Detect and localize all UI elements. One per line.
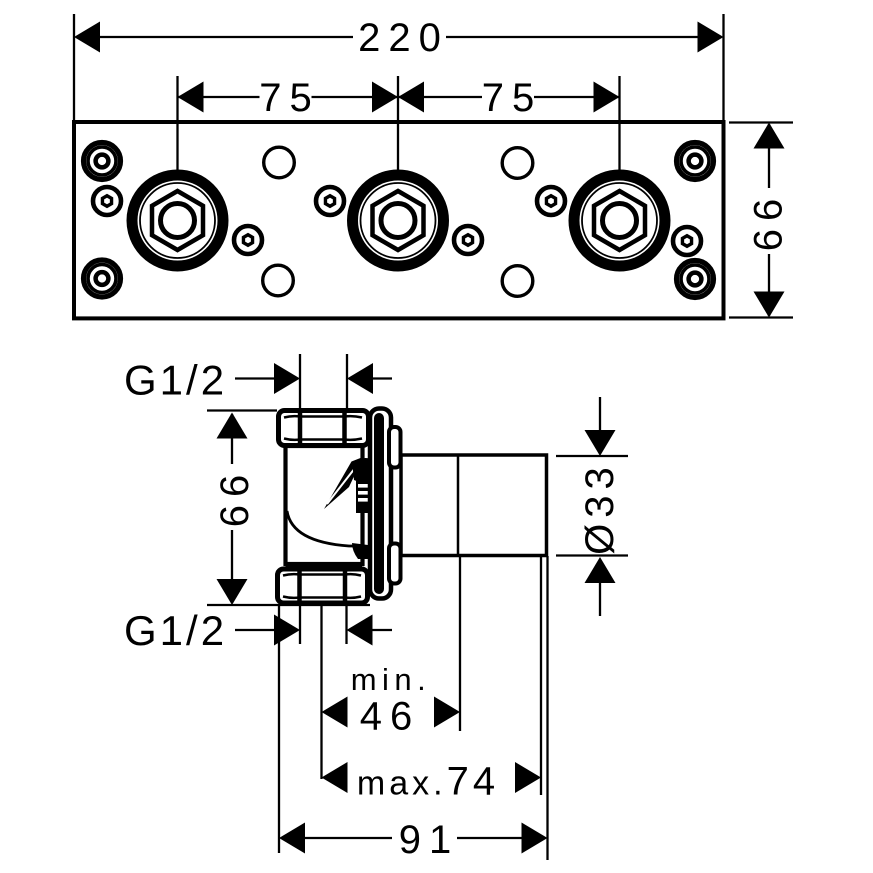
mounting bracket frame: [370, 409, 391, 599]
dim max.74 arrow right: [515, 762, 541, 793]
dim O33 arrow up: [585, 557, 616, 583]
bracket tab top: [389, 427, 401, 468]
ext line 91 right: [546, 556, 548, 860]
dim 220 arrow left: [74, 22, 100, 53]
dim 66 right arrow down: [754, 292, 785, 318]
hole H1: [264, 147, 295, 178]
triple ring bottom-right: [677, 261, 714, 298]
dim G1/2 bottom leader line: [235, 629, 276, 631]
dim min.46 arrow right: [434, 697, 460, 728]
ext line max74 right: [540, 556, 542, 795]
screw S6: [673, 227, 701, 255]
screw S1: [93, 187, 121, 215]
dim 66 left arrow up: [217, 413, 248, 439]
flow arrow inside body: [324, 457, 363, 509]
hole H3: [502, 148, 533, 179]
triple ring top-right: [677, 143, 714, 180]
dim G1/2 top leader line: [235, 377, 276, 379]
dim max.74 arrow left: [322, 762, 348, 793]
dim G1/2 top arrow left: [347, 363, 373, 394]
dim G1/2 bottom tail: [373, 629, 393, 631]
dim G1/2 bottom arrow right: [274, 615, 300, 646]
dim O33 lower line: [599, 581, 601, 616]
dim G1/2 top tail: [373, 377, 392, 379]
valve body: [286, 446, 363, 564]
dim G1/2 bottom ext line 2: [345, 606, 347, 644]
dim 75 extension line at rosette 3: [618, 76, 620, 170]
dim 75 first line: [178, 96, 260, 98]
svg-text:75: 75: [259, 76, 320, 120]
rosette R3 (right connection): [574, 175, 665, 266]
dim 66 left tick bottom: [207, 604, 370, 606]
bottom hex nut: [278, 566, 368, 603]
dim 91 arrow right: [522, 823, 548, 854]
triple ring bottom-left: [84, 260, 121, 297]
dim O33 upper line: [599, 397, 601, 432]
dim 66 right arrow up: [754, 123, 785, 149]
ext line min46 right: [459, 556, 461, 731]
dim 75 first arrow right: [372, 82, 398, 113]
dim 220 arrow right: [698, 22, 724, 53]
svg-text:46: 46: [360, 695, 421, 739]
dim O33 arrow down: [585, 430, 616, 456]
dim 91 arrow left: [279, 823, 305, 854]
dim G1/2 top arrow right: [274, 363, 300, 394]
rosette R1 (left connection): [132, 175, 223, 266]
hole H4: [502, 266, 533, 297]
dim O33 tick top: [556, 455, 628, 457]
screw S4: [454, 226, 482, 254]
dim 220 line: [76, 36, 353, 38]
dim min.46 arrow left: [322, 697, 348, 728]
dim 91 line: [303, 837, 392, 839]
dim 75 second line: [398, 96, 482, 98]
top hex nut: [279, 411, 369, 446]
dim G1/2 top ext line 1: [299, 354, 301, 409]
hole H2: [263, 265, 294, 296]
dim 220 extension line right: [722, 14, 724, 120]
dim 220 extension line left: [73, 14, 75, 120]
dim 75 second arrow left: [398, 82, 424, 113]
screw S2: [234, 226, 262, 254]
dim 66 right line: [768, 124, 770, 188]
screw S5: [537, 187, 565, 215]
dim 75 extension line at rosette 2: [397, 76, 399, 170]
dim 66 right tick bottom: [729, 316, 793, 318]
svg-text:min.: min.: [351, 662, 432, 697]
svg-text:75: 75: [482, 76, 543, 120]
dim G1/2 top ext line 2: [346, 354, 348, 409]
svg-text:220: 220: [358, 16, 449, 60]
cylinder spigot: [401, 455, 547, 556]
dim G1/2 bottom ext line 1: [299, 606, 301, 644]
bracket tab bottom: [389, 544, 401, 584]
dim 66 left tick top: [207, 409, 277, 411]
dim 75 second arrow right: [594, 82, 620, 113]
svg-text:max.74: max.74: [357, 760, 499, 804]
rosette R2 (middle connection): [353, 175, 444, 266]
ext line 91 left: [278, 605, 280, 853]
svg-text:66: 66: [747, 191, 791, 252]
dim 66 left line: [231, 414, 233, 464]
svg-text:91: 91: [399, 818, 460, 862]
dim 75 extension line at rosette 1: [176, 76, 178, 170]
svg-text:66: 66: [213, 467, 257, 528]
dim 75 first arrow left: [178, 82, 204, 113]
screw S3: [316, 187, 344, 215]
svg-text:G1/2: G1/2: [124, 607, 227, 654]
svg-text:Ø33: Ø33: [578, 461, 622, 555]
plate outline: [74, 122, 724, 318]
dim 66 left arrow down: [217, 579, 248, 605]
cartridge seals (black details): [352, 458, 380, 559]
dim O33 tick bottom: [556, 554, 628, 556]
dim G1/2 bottom arrow left: [347, 615, 373, 646]
ext line min46/max74 left: [320, 605, 322, 779]
triple ring top-left: [84, 143, 121, 180]
dim 66 right tick top: [729, 121, 793, 123]
svg-text:G1/2: G1/2: [124, 357, 227, 404]
